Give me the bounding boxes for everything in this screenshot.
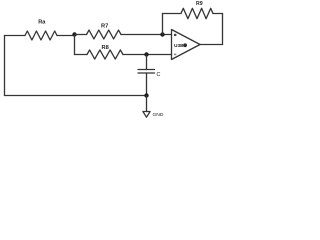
wire feedback left vertical [162,14,164,35]
capacitor C [138,70,155,74]
resistor R8 [87,50,123,59]
svg-text:R8: R8 [102,45,109,51]
wire Ra to node A [57,35,75,36]
wire node A to R7 [75,34,87,36]
wire feedback top right lead [213,13,223,15]
svg-text:GND: GND [153,112,164,118]
pin + non-inverting input mark [174,54,176,56]
wire left rail [4,36,6,96]
node B feedback junction [160,32,164,36]
wire node A down to R8 branch [74,35,76,55]
wire feedback right vertical [222,14,224,45]
op-amp U3B [172,30,201,60]
wire bottom rail [5,95,147,97]
resistor Ra [25,31,57,40]
wire capacitor top lead [146,55,148,70]
svg-text:R9: R9 [196,1,203,7]
pin - inverting input mark [174,34,176,36]
wire to ground [146,96,148,112]
svg-text:Ra: Ra [38,20,46,26]
wire R8 to op-amp non-inverting input [123,54,172,56]
svg-text:C: C [157,72,161,78]
node ground junction [144,93,148,97]
node C-top junction on + input line [144,52,148,56]
wire R7 to op-amp inverting input [121,34,172,36]
svg-text:R7: R7 [101,24,108,30]
wire input lead [5,35,26,37]
node A junction [72,32,76,36]
ground [143,112,150,118]
wire capacitor bottom lead [146,73,148,96]
wire to R8 [75,54,88,56]
wire feedback top left lead [163,13,182,15]
wire op-amp output [200,44,223,46]
resistor R9 [181,8,213,18]
svg-text:U3B: U3B [174,43,184,49]
resistor R7 [87,30,122,39]
